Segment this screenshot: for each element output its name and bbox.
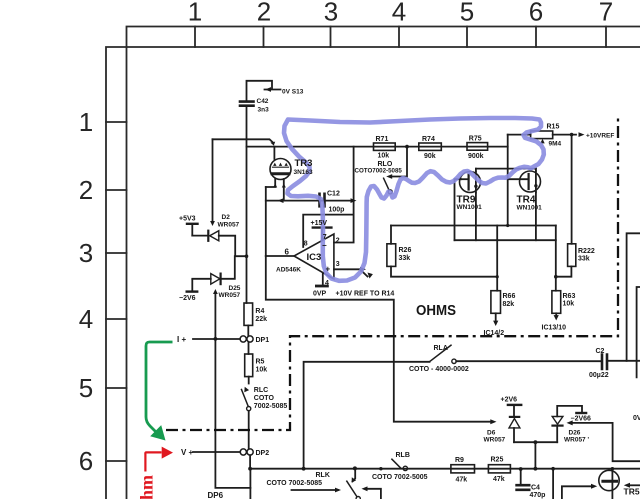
wire: C2 to right edge: [608, 360, 640, 362]
svg-text:DP1: DP1: [256, 337, 270, 344]
svg-text:OHMS: OHMS: [416, 303, 456, 319]
svg-text:5: 5: [79, 373, 93, 403]
svg-text:C2: C2: [596, 348, 605, 355]
wire: DP1 to R5: [248, 342, 250, 354]
arrow left into D26: [567, 420, 573, 425]
svg-text:10k: 10k: [563, 301, 575, 308]
svg-text:RLA: RLA: [434, 345, 448, 352]
svg-text:2: 2: [257, 0, 271, 27]
diode D25: [192, 256, 235, 284]
supply -2V6: [187, 280, 198, 292]
transistor TR4: [508, 171, 541, 192]
arrow right pin3: [360, 267, 366, 272]
svg-text:R9: R9: [455, 457, 464, 464]
svg-text:V +: V +: [181, 448, 194, 457]
green annotation arrow: [146, 342, 173, 433]
svg-text:4: 4: [392, 0, 406, 27]
wire: source bus y=240.2: [455, 239, 556, 241]
svg-text:IC3: IC3: [307, 252, 322, 263]
resistor R5: [245, 354, 253, 377]
arrow up 9M4: [540, 139, 544, 144]
svg-text:I +: I +: [177, 335, 186, 344]
svg-text:22k: 22k: [255, 316, 267, 323]
arrow down IC13/10: [554, 315, 559, 320]
wire: I+ sense line with up arrow: [215, 294, 250, 488]
svg-text:4: 4: [325, 280, 329, 287]
0VP ground pin4: [316, 273, 327, 286]
svg-text:−2V6: −2V6: [179, 295, 196, 302]
box fragment right edge outer: [627, 233, 640, 360]
svg-text:6: 6: [285, 248, 290, 257]
red arrowhead: [162, 447, 173, 459]
svg-text:4: 4: [79, 304, 93, 334]
svg-text:6: 6: [79, 446, 93, 476]
capacitor C2: [602, 355, 607, 370]
resistor R71: [374, 143, 396, 150]
arrow RLK blade: [352, 477, 357, 482]
diode D2: [192, 231, 246, 257]
svg-text:DP2: DP2: [256, 450, 270, 457]
resistor R25: [488, 465, 510, 473]
arrow right on C12 wire: [351, 198, 357, 203]
switch RLK: [292, 469, 381, 499]
svg-text:R26: R26: [399, 247, 412, 254]
arrowheads: [210, 87, 630, 492]
svg-text:R75: R75: [469, 136, 482, 143]
wire: net arrow into D26 from right: [570, 423, 640, 461]
wire: down to DP6: [249, 469, 251, 499]
connector DP1: [240, 336, 253, 342]
wire: pin2 riser: [334, 147, 354, 243]
svg-text:COTO: COTO: [254, 395, 275, 402]
arrow tip +10VREF diag: [368, 273, 373, 279]
resistor R26: [387, 244, 396, 267]
wire: RLA to C2: [456, 360, 601, 362]
diode D6: [508, 405, 521, 442]
svg-text:COTO 7002-5005: COTO 7002-5005: [372, 474, 428, 481]
svg-text:3: 3: [336, 261, 340, 268]
resistor R74: [419, 143, 442, 150]
svg-text:R63: R63: [563, 293, 576, 300]
svg-text:+10V REF TO R14: +10V REF TO R14: [336, 291, 395, 298]
wire: I+ lead: [193, 338, 240, 340]
arrow left TR5 right: [624, 483, 630, 488]
svg-text:WR057: WR057: [484, 437, 506, 444]
svg-text:R4: R4: [255, 308, 264, 315]
svg-text:R15: R15: [547, 124, 560, 131]
svg-text:7: 7: [323, 234, 327, 241]
svg-text:C42: C42: [257, 98, 269, 105]
svg-text:+15V: +15V: [311, 220, 328, 227]
svg-text:Ohm: Ohm: [137, 475, 157, 499]
transistor TR5: [599, 469, 619, 499]
arrow right +10VREF label: [579, 132, 585, 137]
svg-text:−: −: [322, 241, 327, 250]
svg-text:+: +: [326, 265, 331, 274]
wire: R26 bottom run: [391, 266, 497, 276]
svg-text:TR3: TR3: [295, 158, 313, 169]
wire: R66 arrow to IC14/2: [495, 313, 497, 322]
wire: pin8 guard box: [303, 215, 353, 247]
svg-text:DP6: DP6: [208, 491, 224, 499]
arrow up I+ line: [213, 289, 218, 294]
svg-text:R25: R25: [491, 457, 504, 464]
wire: arrow line down to D2 label: [212, 139, 214, 221]
red annotation arrow: [145, 452, 161, 471]
wire: R222 bottom link: [556, 266, 572, 276]
svg-text:+2V6: +2V6: [501, 397, 518, 404]
svg-text:7: 7: [599, 0, 613, 27]
svg-text:WN1001: WN1001: [517, 205, 543, 212]
wire: C12 feedback line: [266, 200, 354, 202]
TR3 source arrows: [273, 184, 277, 188]
svg-text:D2: D2: [222, 214, 231, 221]
svg-text:10k: 10k: [256, 367, 268, 374]
svg-text:RLK: RLK: [316, 472, 330, 479]
supply +5V3: [187, 224, 198, 236]
arrow down onto TR3 gate: [270, 142, 275, 146]
svg-text:D26: D26: [569, 430, 581, 437]
svg-text:+10VREF: +10VREF: [586, 133, 614, 140]
wire: main horizontal bus y=146.6: [247, 146, 508, 148]
wire: TR5 gate arrow left: [562, 486, 593, 499]
svg-text:R5: R5: [256, 359, 265, 366]
arrow right TR5 gate: [591, 484, 597, 489]
svg-text:COTO - 4000-0002: COTO - 4000-0002: [409, 366, 469, 373]
wire: bottom bus y=468.7: [250, 468, 640, 470]
svg-text:COTO 7002-5085: COTO 7002-5085: [267, 480, 323, 487]
diode D26: [552, 406, 586, 442]
svg-text:00µ22: 00µ22: [589, 372, 609, 379]
wire: R15 riser from bus: [507, 135, 509, 226]
svg-text:IC13/10: IC13/10: [542, 325, 567, 332]
svg-text:2: 2: [79, 175, 93, 205]
wire: DP2 down to bottom bus: [249, 455, 251, 469]
svg-text:COTO7002-5085: COTO7002-5085: [355, 168, 403, 175]
svg-text:C12: C12: [327, 191, 340, 198]
wire: gate wire y=139.3 with down arrow: [213, 139, 274, 142]
svg-text:33k: 33k: [578, 256, 590, 263]
wire: TR3 source to op-amp pin6: [265, 187, 267, 256]
wire: R63 arrow to IC13/10: [555, 313, 557, 316]
TR3 gate arrows inside: [273, 163, 276, 166]
wire: pin3 output to +10VREF: [334, 269, 368, 276]
arrow right into D6: [490, 419, 496, 424]
switch RLO: [384, 147, 407, 194]
wire: TR5 arrow right: [628, 484, 640, 486]
arrow down to D2: [210, 221, 215, 226]
svg-text:100p: 100p: [329, 207, 345, 214]
switch RLC: [242, 377, 251, 449]
capacitor C42: [240, 102, 254, 106]
grid numbers left: [79, 107, 93, 476]
svg-text:3: 3: [79, 238, 93, 268]
svg-text:900k: 900k: [468, 153, 484, 160]
svg-text:7002-5085: 7002-5085: [254, 403, 288, 410]
resistor R4: [244, 303, 253, 325]
svg-text:RLB: RLB: [396, 452, 410, 459]
arrow at 0V S13: [265, 87, 271, 92]
wire: gate bus y=225.5: [391, 225, 556, 227]
resistor R75: [467, 143, 488, 151]
wire: R63 feed riser: [555, 226, 557, 291]
svg-text:6: 6: [529, 0, 543, 27]
svg-text:WR057: WR057: [218, 222, 240, 229]
svg-text:WN1001: WN1001: [457, 204, 483, 211]
arrow left RLK right: [362, 486, 368, 491]
svg-text:+5V3: +5V3: [179, 216, 196, 223]
svg-text:R66: R66: [503, 293, 516, 300]
arrow left on C12 wire: [278, 198, 284, 203]
svg-text:0V S13: 0V S13: [282, 89, 304, 96]
wire: R26 top stub: [390, 226, 392, 244]
wire: pin6 input: [266, 255, 295, 257]
wire: V+ lead: [193, 451, 240, 453]
switch RLB: [392, 459, 408, 470]
svg-text:C4: C4: [531, 485, 540, 492]
svg-text:D6: D6: [487, 430, 496, 437]
svg-text:0VP: 0VP: [313, 291, 327, 298]
arrow left RLO: [386, 174, 392, 179]
wire: TR9 gate riser: [455, 179, 462, 240]
svg-text:R74: R74: [422, 136, 435, 143]
capacitor C12: [320, 194, 325, 207]
transistor TR9: [460, 172, 481, 193]
blue highlighter trace: [284, 118, 544, 281]
wire: R66 feed riser: [496, 226, 498, 291]
svg-text:−2V66: −2V66: [571, 416, 592, 423]
dash-dot section boundary: [166, 119, 618, 431]
svg-text:WR057 ': WR057 ': [564, 437, 589, 444]
capacitor C4: [517, 469, 530, 490]
svg-text:R222: R222: [578, 248, 595, 255]
resistor R63: [552, 291, 561, 314]
svg-text:47k: 47k: [456, 477, 468, 484]
svg-text:33k: 33k: [399, 255, 411, 262]
wire: drain link bus y=168.6: [476, 168, 536, 170]
switch RLA: [430, 345, 456, 363]
wire: TR9 drain up / source down: [475, 169, 477, 241]
svg-text:3n3: 3n3: [258, 107, 270, 114]
svg-text:0V: 0V: [633, 415, 640, 422]
green arrowhead: [150, 425, 165, 440]
wire: drop at x=553: [552, 469, 554, 499]
svg-text:470p: 470p: [530, 492, 546, 499]
svg-text:IC14/2: IC14/2: [484, 330, 505, 337]
svg-text:WR057: WR057: [219, 292, 241, 299]
wire: RLA feed and drop: [304, 362, 430, 469]
svg-text:3: 3: [324, 0, 338, 27]
svg-text:90k: 90k: [424, 153, 436, 160]
svg-text:1: 1: [188, 0, 202, 27]
resistor R9: [451, 465, 475, 473]
svg-text:TR5: TR5: [624, 487, 640, 497]
svg-text:10k: 10k: [378, 153, 390, 160]
resistor R66: [491, 291, 501, 314]
arrow RLC blade: [244, 387, 249, 393]
svg-text:AD546K: AD546K: [276, 267, 301, 274]
svg-text:2: 2: [336, 238, 340, 245]
svg-text:RLC: RLC: [254, 387, 268, 394]
svg-text:1: 1: [79, 107, 93, 137]
arrow right RLK left: [335, 488, 341, 493]
wire: main left bus x=246.5: [246, 107, 248, 303]
svg-text:R71: R71: [376, 136, 389, 143]
connector DP2: [240, 449, 253, 455]
resistor R15: [508, 131, 576, 139]
wire: 0VP run to D6 arrow: [266, 256, 493, 422]
svg-text:5: 5: [460, 0, 474, 27]
svg-text:D25: D25: [229, 285, 241, 292]
wire: bus through R4: [247, 325, 249, 336]
+15V supply pin7: [313, 228, 332, 241]
resistor R222: [568, 244, 576, 267]
transistor TR3: [266, 147, 291, 201]
wire: 0V S13 stub: [247, 81, 281, 100]
svg-text:47k: 47k: [493, 476, 505, 483]
arrow down IC14/2: [493, 321, 498, 326]
wire: TR4 drain up / source down: [535, 169, 537, 241]
grid numbers top: [188, 0, 613, 27]
svg-text:9M4: 9M4: [549, 141, 562, 148]
border frame: top ruler band: [127, 27, 640, 48]
wire: diode clamp bus: [514, 442, 557, 469]
box fragment right edge inner: [637, 287, 640, 377]
svg-text:3N163: 3N163: [294, 169, 314, 176]
border frame: left ruler band: [106, 47, 127, 499]
svg-text:8: 8: [304, 241, 308, 248]
wire: +10VREF to R222: [571, 135, 573, 244]
svg-text:82k: 82k: [503, 301, 515, 308]
op-amp IC3: [294, 234, 334, 279]
